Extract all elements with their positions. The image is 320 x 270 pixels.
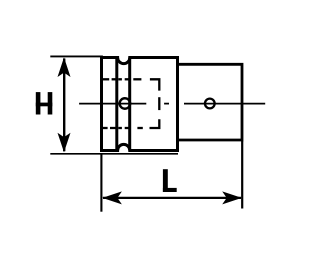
- centerline: [79, 103, 265, 105]
- H arrowhead down: [58, 133, 71, 153]
- H extension line bottom: [50, 153, 178, 155]
- H dimension line: [63, 59, 65, 152]
- H extension line top: [50, 55, 103, 57]
- L arrowhead left: [102, 191, 122, 204]
- label H: [36, 92, 53, 114]
- hidden square hole right edge (dashed): [158, 97, 160, 110]
- groove left edge: [115, 58, 118, 151]
- L dimension line: [103, 197, 241, 199]
- L arrowhead right: [222, 191, 242, 204]
- socket body outline with ring groove notches: [102, 58, 178, 151]
- L extension line left: [100, 154, 102, 212]
- groove right edge: [128, 58, 131, 151]
- cylinder outline: [178, 64, 243, 140]
- hidden square hole top edge (dashed): [103, 79, 160, 90]
- H arrowhead up: [58, 57, 71, 77]
- pin hole right: [205, 99, 215, 109]
- label L: [163, 169, 177, 192]
- L extension line right: [241, 141, 243, 209]
- hidden square hole bottom edge (dashed): [103, 119, 160, 128]
- pin hole left: [120, 98, 130, 109]
